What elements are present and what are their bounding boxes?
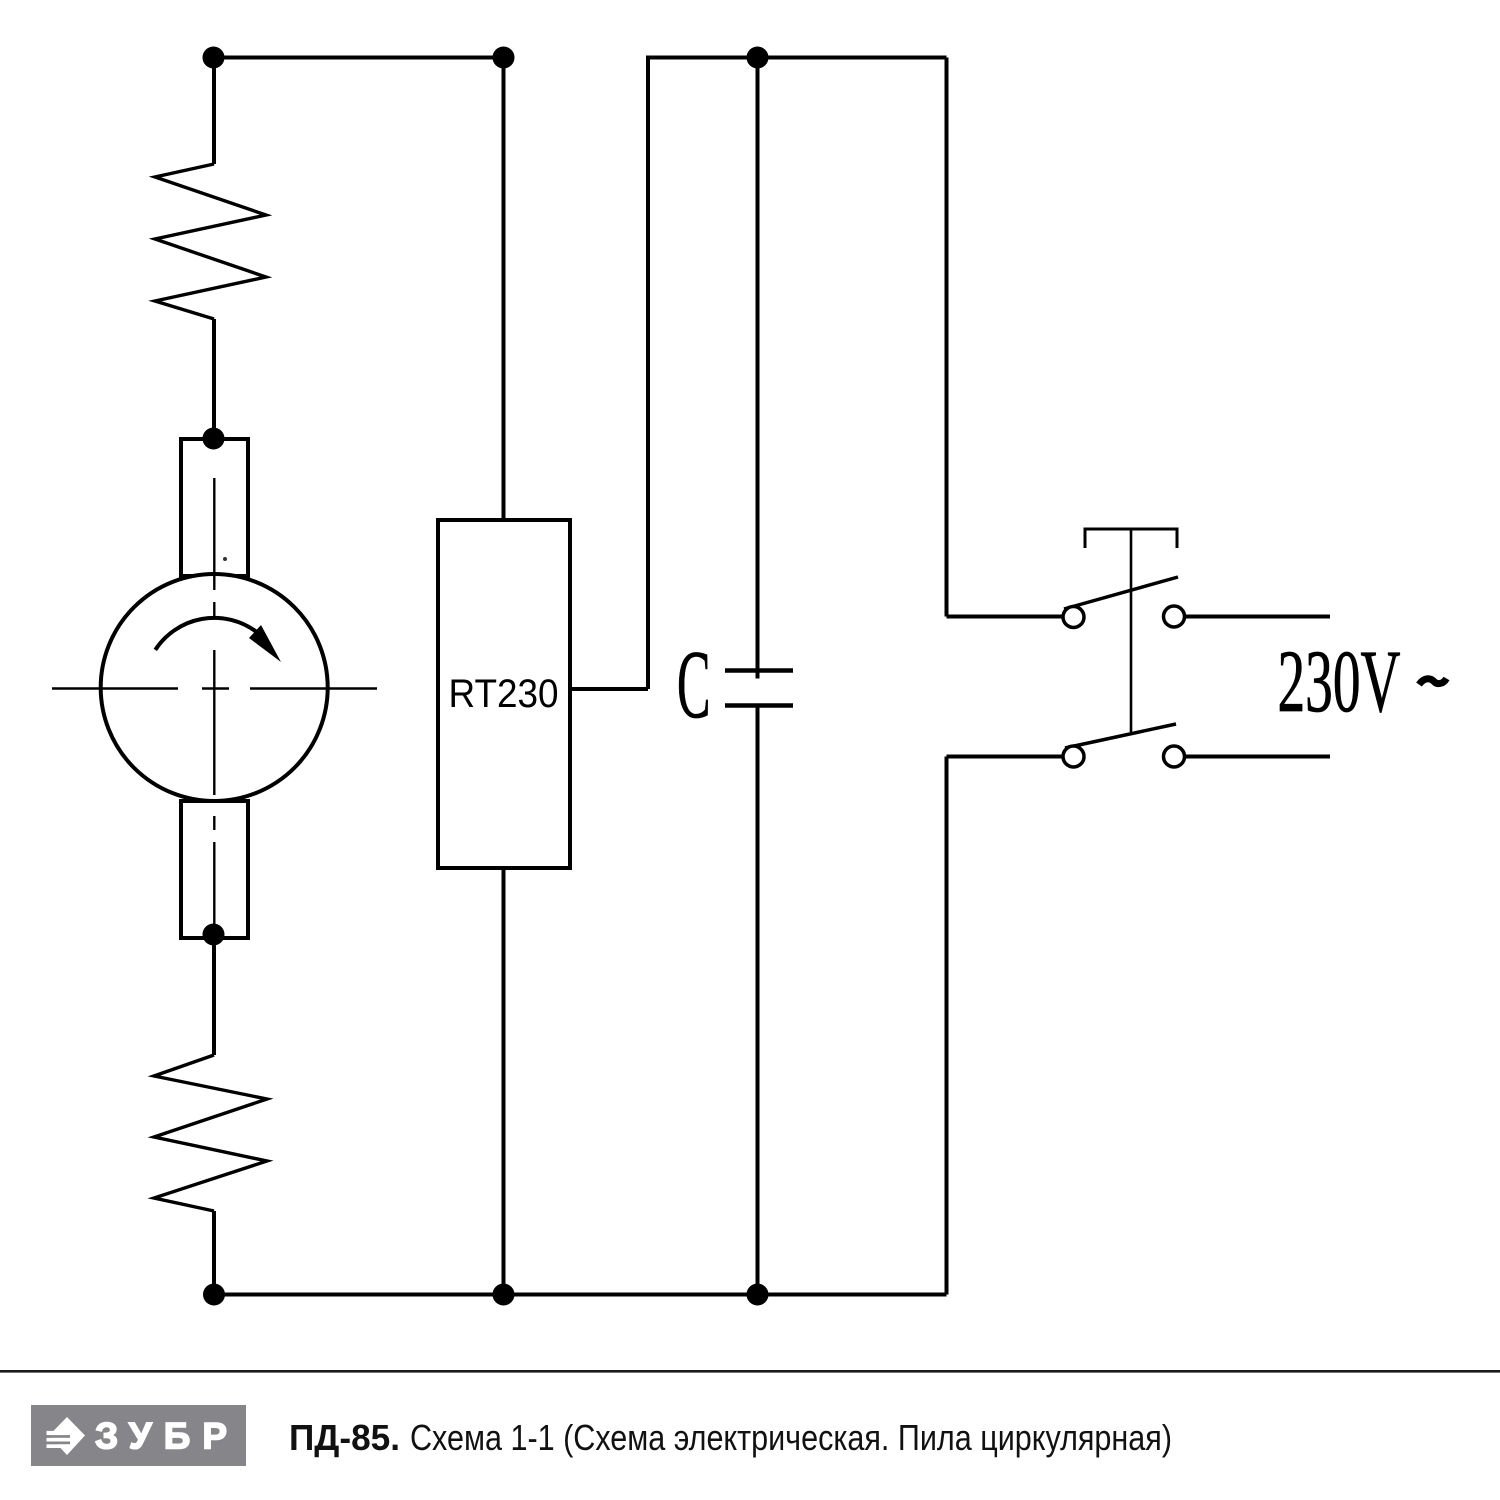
wire vertical riser from RT230 pin <box>646 56 650 690</box>
wire capacitor bottom lead <box>756 706 760 1295</box>
node bottom RT230 junction <box>493 1284 515 1306</box>
svg-text:ЗУБР: ЗУБР <box>95 1416 239 1457</box>
thermal protector RT230 box <box>438 520 570 868</box>
svg-text:RT230: RT230 <box>449 672 559 716</box>
wire capacitor top lead <box>756 58 760 679</box>
node motor bottom terminal <box>203 924 225 946</box>
wire from switch bottom-left contact <box>947 755 1064 759</box>
wire top-left horizontal <box>213 56 504 60</box>
wire switch to supply top <box>1186 615 1330 619</box>
switch S1 top-right contact <box>1164 606 1185 627</box>
wire right rail down <box>945 58 949 617</box>
node A top-left junction <box>203 47 225 69</box>
node bottom-left junction <box>203 1284 225 1306</box>
wire right rail lower <box>945 757 949 1295</box>
wire RT230 top lead <box>502 58 506 521</box>
wire top-right horizontal <box>646 56 947 60</box>
switch S1 actuator link <box>1130 529 1133 732</box>
logo ZUBR gray box <box>31 1405 246 1466</box>
capacitor C plates <box>725 668 793 673</box>
wire RT230 right pin <box>570 687 648 691</box>
svg-text:C: C <box>677 631 711 738</box>
switch S1 actuator bracket <box>1085 529 1177 548</box>
wire bottom horizontal rail <box>214 1293 947 1297</box>
motor brush speck mark <box>223 557 227 561</box>
logo diamond <box>49 1417 85 1455</box>
wire R1 to motor <box>212 319 216 440</box>
wire RT230 bottom lead <box>502 868 506 1295</box>
resistor R2 <box>154 1055 267 1211</box>
wire bottom lead of R2 <box>212 1211 216 1295</box>
footer separator line <box>0 1370 1500 1373</box>
svg-text:230V: 230V <box>1278 633 1401 731</box>
switch S1 bottom blade <box>1065 724 1176 748</box>
wire motor to R2 <box>212 937 216 1055</box>
node bottom capacitor junction <box>747 1284 769 1306</box>
switch S1 bottom-right contact <box>1164 746 1185 767</box>
node motor top terminal <box>203 428 225 450</box>
wire to switch top-left contact <box>947 615 1064 619</box>
switch S1 top-left contact <box>1063 607 1084 628</box>
logo stripes <box>47 1431 70 1435</box>
switch S1 top blade <box>1064 577 1178 609</box>
wire top lead of R1 <box>212 58 216 165</box>
node B top RT230 junction <box>493 47 515 69</box>
label AC tilde <box>1419 679 1447 685</box>
svg-text:Схема 1-1 (Схема электрическая: Схема 1-1 (Схема электрическая. Пила цир… <box>410 1417 1172 1458</box>
motor M1 <box>52 439 377 938</box>
switch S1 bottom-left contact <box>1063 746 1084 767</box>
resistor R1 <box>155 164 266 319</box>
node top capacitor junction <box>747 47 769 69</box>
wire switch to supply bottom <box>1186 755 1330 759</box>
svg-text:ПД-85.: ПД-85. <box>289 1417 400 1458</box>
